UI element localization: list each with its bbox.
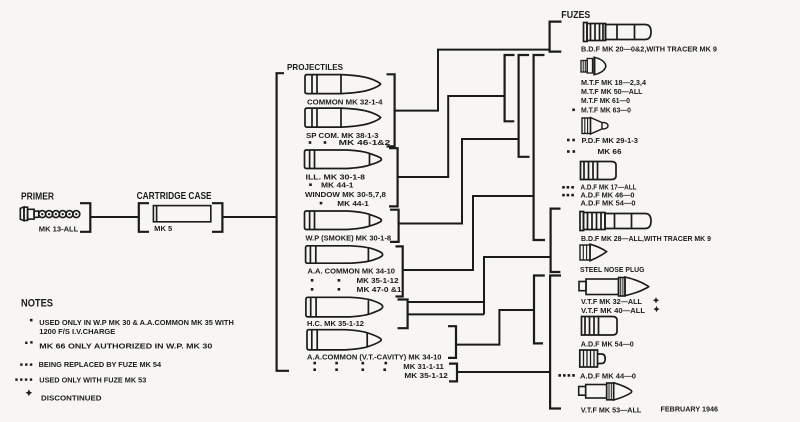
wire COMMON group to BDF MK20 fuze [395,50,550,111]
fuze VTF MK53 icon [579,383,632,400]
asterisks for MK 66 [567,150,575,153]
svg-text:A.D.F MK 46—0: A.D.F MK 46—0 [581,192,635,199]
diamond marker VTF 32 [653,297,659,303]
fuze MTF icon [581,57,606,75]
bracket right of primer [80,203,90,232]
svg-text:A.D.F MK 44—0: A.D.F MK 44—0 [580,373,636,380]
fuze ADF MK54 icon [582,317,618,336]
diamond marker VTF 40 [653,306,659,312]
svg-text:A.D.F MK 54—0: A.D.F MK 54—0 [581,200,636,207]
wire VT cavity MK31 MK35 to tall VTF bracket [457,371,550,373]
fuze bracket VTF32 ADF54 group [534,276,545,344]
bracket right of H.C. group [398,300,408,329]
fuze ADF MK17 icon [581,162,617,180]
fuze PDF icon [582,118,608,135]
svg-text:M.T.F MK 50—ALL: M.T.F MK 50—ALL [581,89,643,96]
asterisks row 1 for VT cavity [313,362,387,365]
projectile SP COM MK 38 bullet [305,108,381,127]
svg-text:PROJECTILES: PROJECTILES [287,62,343,72]
svg-text:MK 46-1&2: MK 46-1&2 [339,140,391,147]
svg-text:MK 31-1-11: MK 31-1-11 [403,364,444,371]
fuze bracket BDF MK20 [550,22,562,52]
projectile A.A. COMMON MK 34 bullet [306,246,383,263]
bracket right of A.A. COMMON group [396,246,403,296]
projectile A.A. COMMON VT-CAVITY bullet [307,330,381,350]
svg-text:USED ONLY IN W.P MK 30 & A.: USED ONLY IN W.P MK 30 & A.A.COMMON MK 3… [39,320,234,327]
svg-text:NOTES: NOTES [21,298,53,310]
svg-text:A.A.COMMON (V.T.-CAVITY) MK 34: A.A.COMMON (V.T.-CAVITY) MK 34-10 [307,354,442,361]
svg-text:MK 47-0 &1: MK 47-0 &1 [357,287,402,294]
svg-text:A.A. COMMON MK 34-10: A.A. COMMON MK 34-10 [308,269,396,276]
svg-text:M.T.F MK 18—2,3,4: M.T.F MK 18—2,3,4 [581,80,646,87]
svg-text:MK 66 ONLY AUTHORIZED IN W: MK 66 ONLY AUTHORIZED IN W.P. MK 30 [39,344,212,351]
svg-text:SP COM. MK 38-1-3: SP COM. MK 38-1-3 [306,133,379,140]
projectile W.P SMOKE bullet [305,211,382,230]
wire cartridge case to projectiles bracket [223,216,277,218]
bracket right of MK 34-10 entry [448,326,456,358]
svg-text:MK 13-ALL: MK 13-ALL [39,227,79,234]
asterisk for second MK 44-1 [320,202,323,205]
fuze bracket MTF plus PDF group [519,55,530,157]
projectile ILL MK 30 bullet [305,150,382,169]
svg-text:B.D.F MK 28—ALL,WITH TRACER M: B.D.F MK 28—ALL,WITH TRACER MK 9 [581,236,711,243]
asterisks for ADF MK17 [562,186,574,189]
asterisks for ADF MK44 [558,374,574,377]
asterisk for MTF MK 63 [572,109,575,112]
asterisks row for MK 47 [311,288,340,291]
note 4 markers [15,378,32,380]
projectiles group bracket [277,73,289,371]
fuze BDF MK20 icon [584,23,652,42]
fuze bracket VTF32 to VTF53 tall group [550,276,561,409]
svg-text:FEBRUARY 1946: FEBRUARY 1946 [661,406,719,413]
svg-text:PRIMER: PRIMER [21,192,55,203]
asterisks for ADF MK46 [562,194,574,197]
wire W.P group to MTF PDF fuzes [399,139,519,224]
wire H.C. group upper branch [408,301,484,303]
fuze ADF MK44 icon [580,350,605,367]
svg-text:MK 5: MK 5 [154,226,172,233]
bracket right of W.P group [390,210,399,242]
bracket left of cartridge case [139,203,149,232]
svg-text:P.D.F MK 29-1-3: P.D.F MK 29-1-3 [582,138,639,145]
svg-text:MK 44-1: MK 44-1 [337,201,369,208]
svg-text:CARTRIDGE CASE: CARTRIDGE CASE [137,191,212,202]
wire primer to cartridge case [90,216,138,218]
asterisks for PDF MK 29 [567,139,575,142]
primer bead dots [41,213,77,215]
svg-text:MK 35-1-12: MK 35-1-12 [357,278,399,285]
svg-text:WINDOW MK 30-5,7,8: WINDOW MK 30-5,7,8 [305,192,386,199]
primer MK13 icon [20,207,80,221]
fuze bracket MTF PDF ADF BDF28 group [534,55,545,240]
svg-text:STEEL NOSE PLUG: STEEL NOSE PLUG [580,267,645,274]
svg-text:A.D.F MK 54—0: A.D.F MK 54—0 [581,342,634,349]
wire ILL group to MTF fuzes [398,96,505,177]
svg-text:MK 44-1: MK 44-1 [321,182,354,189]
svg-text:M.T.F MK 63—0: M.T.F MK 63—0 [581,107,631,114]
wire A.A. COMMON group to fuze column [403,196,534,270]
svg-text:M.T.F MK 61—0: M.T.F MK 61—0 [581,98,630,105]
projectile COMMON MK 32 bullet [305,75,381,94]
cartridge case MK 5 body [153,206,210,222]
svg-text:MK 35-1-12: MK 35-1-12 [404,373,448,380]
svg-text:V.T.F MK 53—ALL: V.T.F MK 53—ALL [581,407,642,414]
note 2 markers [25,341,33,344]
svg-text:DISCONTINUED: DISCONTINUED [41,396,102,403]
fuze VTF MK32 icon [579,277,649,296]
svg-text:W.P (SMOKE) MK 30-1-8: W.P (SMOKE) MK 30-1-8 [306,235,392,242]
svg-text:V.T.F MK 40—ALL: V.T.F MK 40—ALL [581,308,646,315]
wire H.C. group lower branch [408,313,484,315]
bracket right of MK31 MK35 entries [449,364,457,382]
svg-text:ILL. MK 30-1-8: ILL. MK 30-1-8 [306,174,366,181]
fuze BDF MK28 icon [580,212,651,231]
fuze steel nose plug icon [580,244,607,261]
svg-text:MK 66: MK 66 [598,149,622,156]
bracket right of ILL WINDOW group [389,148,398,206]
fuze bracket MTF group [505,55,515,121]
svg-text:BEING REPLACED BY FUZE MK 54: BEING REPLACED BY FUZE MK 54 [39,362,162,369]
svg-text:1200 F/S I.V.CHARGE: 1200 F/S I.V.CHARGE [39,329,115,336]
bracket right of COMMON group [387,74,395,146]
asterisks for MK 46 [309,141,327,144]
projectile H.C. bullet [306,297,383,317]
asterisks row for MK 35 [311,279,340,282]
svg-text:COMMON MK 32-1-4: COMMON MK 32-1-4 [307,99,383,106]
bracket right of cartridge case [212,203,222,232]
note 5 diamond marker [25,389,32,396]
svg-text:V.T.F MK 32—ALL: V.T.F MK 32—ALL [581,299,643,306]
wire H.C. riser to BDF MK28 bracket [484,257,551,314]
svg-text:FUZES: FUZES [561,10,590,21]
wire VT cavity MK34 to VTF bracket [456,310,534,345]
asterisk for MK 44-1 [309,183,312,186]
asterisks row 2 for VT cavity [313,368,386,371]
svg-text:B.D.F MK 20—0&2,WITH TRACER: B.D.F MK 20—0&2,WITH TRACER MK 9 [581,47,717,54]
note 3 markers [20,363,32,365]
svg-text:H.C. MK 35-1-12: H.C. MK 35-1-12 [307,321,364,328]
note 1 marker [30,319,33,322]
svg-text:A.D.F MK 17—ALL: A.D.F MK 17—ALL [581,185,638,192]
svg-text:USED ONLY WITH FUZE MK 53: USED ONLY WITH FUZE MK 53 [39,378,146,385]
fuze bracket BDF28 steel nose plug group [551,209,561,272]
